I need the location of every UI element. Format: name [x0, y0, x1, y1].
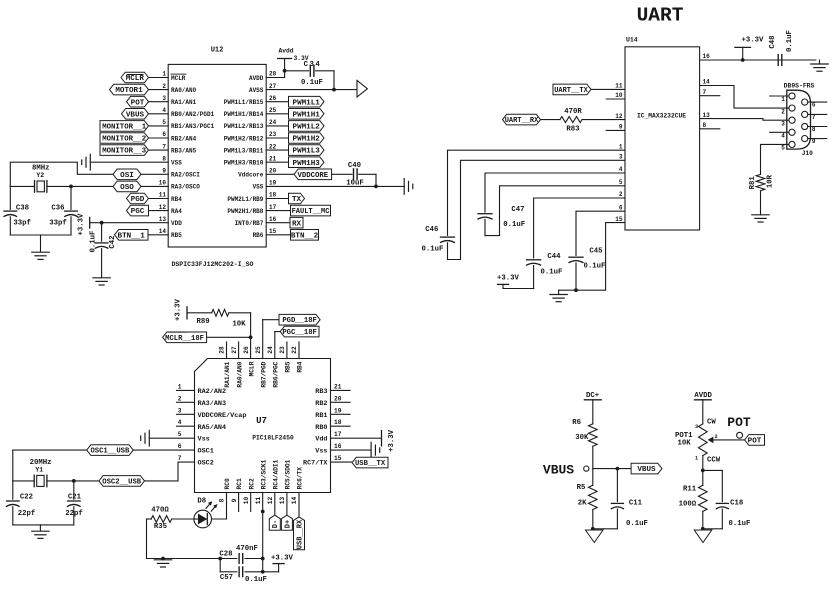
- power +3.3V bottom U7: [271, 555, 294, 564]
- svg-text:30K: 30K: [575, 434, 589, 442]
- wire pin3: [149, 101, 169, 103]
- svg-text:RB3/AN5: RB3/AN5: [171, 147, 197, 154]
- wires U7 left stubs pins1-4: [177, 390, 195, 426]
- node OSI flag: [113, 169, 141, 180]
- svg-text:0.1uF: 0.1uF: [786, 30, 794, 52]
- svg-text:Vddcore: Vddcore: [238, 172, 264, 179]
- capacitor C42: [90, 223, 118, 278]
- svg-text:6: 6: [619, 204, 623, 211]
- svg-text:BTN__2: BTN__2: [291, 232, 319, 240]
- svg-text:PWM1L3: PWM1L3: [293, 148, 321, 156]
- svg-text:15: 15: [615, 216, 623, 223]
- wire to ground C45: [559, 290, 576, 294]
- power Avdd supply: [278, 48, 309, 78]
- wire pin2: [149, 89, 169, 91]
- wire DB9 pin4 stub: [770, 131, 789, 133]
- wire pin24: [266, 125, 288, 127]
- svg-text:5: 5: [619, 179, 623, 186]
- UART title: [637, 5, 684, 27]
- svg-text:TX: TX: [292, 196, 302, 204]
- svg-text:16: 16: [703, 53, 711, 60]
- svg-text:13: 13: [279, 497, 286, 505]
- svg-text:5: 5: [781, 145, 785, 152]
- wire pin11: [149, 198, 169, 200]
- wire OSC2 route: [145, 462, 195, 481]
- svg-text:PWM1L1/RB15: PWM1L1/RB15: [224, 99, 264, 106]
- wire crystal Y1 left: [13, 480, 34, 482]
- svg-text:27: 27: [269, 83, 277, 90]
- svg-text:DB9S-FRS: DB9S-FRS: [784, 82, 815, 89]
- node PGD flag: [127, 193, 149, 204]
- svg-text:33pf: 33pf: [49, 219, 67, 227]
- svg-text:2: 2: [781, 108, 785, 115]
- svg-text:MCLR__18F: MCLR__18F: [165, 335, 204, 343]
- svg-text:17: 17: [334, 431, 342, 438]
- svg-text:10K: 10K: [678, 439, 692, 447]
- wire R6 to R5: [584, 446, 593, 485]
- wire pin9 stub: [606, 129, 625, 131]
- svg-text:R6: R6: [572, 419, 581, 427]
- node OSC1_USB flag: [87, 445, 134, 456]
- svg-text:RB0: RB0: [315, 424, 327, 432]
- svg-text:D8: D8: [197, 498, 206, 506]
- wire OSC2 flag to crystal: [47, 479, 99, 483]
- wire pin26: [266, 101, 288, 103]
- svg-text:C45: C45: [589, 247, 602, 255]
- svg-text:Avdd: Avdd: [278, 48, 293, 55]
- svg-text:R11: R11: [683, 486, 697, 494]
- svg-text:0.1uF: 0.1uF: [245, 576, 267, 584]
- svg-text:U7: U7: [256, 416, 267, 426]
- wire pin5: [149, 125, 169, 127]
- svg-text:14: 14: [703, 79, 711, 86]
- wire pin23: [266, 137, 288, 139]
- svg-text:RB0/AN2/PGD1: RB0/AN2/PGD1: [171, 111, 215, 118]
- svg-text:1: 1: [178, 383, 182, 390]
- svg-text:VDD: VDD: [171, 220, 182, 227]
- svg-text:16: 16: [334, 443, 342, 450]
- svg-text:8: 8: [703, 122, 707, 129]
- svg-text:C47: C47: [511, 206, 524, 214]
- svg-text:MONITOR__3: MONITOR__3: [102, 148, 146, 156]
- wire pin14 to USB_RX: [298, 493, 300, 517]
- svg-text:RC0: RC0: [224, 478, 231, 489]
- svg-text:3: 3: [178, 407, 182, 414]
- capacitor C45: [569, 247, 605, 290]
- svg-text:10K: 10K: [232, 321, 246, 329]
- wire pin20 VDDCORE: [266, 173, 294, 175]
- wire pin13 to D+: [286, 493, 288, 516]
- svg-text:OSI: OSI: [120, 172, 134, 180]
- svg-text:INT0/RB7: INT0/RB7: [235, 220, 264, 227]
- resistor R89: [187, 309, 251, 328]
- svg-text:RX: RX: [292, 220, 302, 228]
- svg-text:21: 21: [334, 383, 342, 390]
- svg-text:OSC2: OSC2: [198, 460, 214, 468]
- svg-text:PIC18LF2450: PIC18LF2450: [252, 435, 294, 442]
- svg-text:13: 13: [159, 216, 167, 223]
- wire pin10 stub: [606, 98, 625, 100]
- capacitor C48: [769, 30, 794, 65]
- svg-text:8: 8: [162, 155, 166, 162]
- wire R5 to ground: [591, 510, 595, 531]
- svg-text:C18: C18: [730, 500, 743, 508]
- wire PGD_18F to pin25: [263, 320, 279, 359]
- svg-text:0.1uF: 0.1uF: [90, 231, 98, 253]
- svg-text:470Ω: 470Ω: [151, 506, 169, 514]
- node POT flag: [127, 96, 149, 107]
- svg-text:RC1: RC1: [236, 478, 243, 489]
- svg-text:10: 10: [159, 180, 167, 187]
- svg-text:RA1/AN1: RA1/AN1: [224, 361, 231, 387]
- wire OSO to pin10: [141, 185, 168, 187]
- svg-text:VBUS: VBUS: [543, 462, 574, 477]
- wire pin6 route: [576, 211, 625, 255]
- svg-text:RC3/SCK1: RC3/SCK1: [260, 459, 267, 489]
- svg-text:R5: R5: [577, 484, 586, 492]
- LED D8: [194, 498, 218, 528]
- svg-text:16: 16: [269, 216, 277, 223]
- capacitor C21: [65, 481, 83, 525]
- svg-text:R89: R89: [197, 318, 210, 326]
- svg-text:PWM2H1/RB8: PWM2H1/RB8: [227, 208, 263, 215]
- svg-text:C42: C42: [109, 235, 117, 248]
- ground sideways pin16 U7: [371, 442, 380, 458]
- wire Vdd pin17: [331, 437, 382, 439]
- node TX flag: [289, 193, 305, 204]
- crystal Y2: [32, 165, 50, 193]
- svg-text:0.1uF: 0.1uF: [421, 245, 443, 253]
- svg-text:22: 22: [291, 346, 298, 354]
- svg-text:0.1uF: 0.1uF: [503, 221, 525, 229]
- svg-text:14: 14: [291, 497, 298, 505]
- node VDDCORE flag: [294, 169, 332, 180]
- wire pin2 route: [534, 198, 625, 258]
- wire pin16: [700, 58, 816, 62]
- U7 side pin names and numbers: [178, 383, 342, 467]
- svg-text:POT: POT: [748, 438, 762, 446]
- svg-text:15: 15: [269, 228, 277, 235]
- wires U7 top stubs: [227, 342, 300, 359]
- wire Y1 caps bottom: [13, 525, 74, 531]
- node MONITOR__1 flag: [100, 121, 149, 132]
- svg-text:RA3/AN3: RA3/AN3: [198, 400, 227, 408]
- resistor R83: [541, 108, 626, 134]
- wire pin7 stub: [700, 95, 720, 97]
- svg-text:+3.3V: +3.3V: [497, 275, 520, 283]
- svg-text:25: 25: [255, 346, 262, 354]
- wire pin25: [266, 113, 288, 115]
- svg-text:POT: POT: [727, 415, 751, 430]
- capacitor C46: [421, 226, 454, 259]
- wire C46 bottom to pin3: [448, 160, 626, 259]
- node VBUS flag: [631, 463, 662, 474]
- svg-text:12: 12: [267, 497, 274, 505]
- ground below C42: [93, 278, 110, 285]
- wire DB9 pin5 to R81: [761, 144, 789, 174]
- capacitor C44: [527, 253, 563, 288]
- svg-text:18: 18: [334, 419, 342, 426]
- resistor R35: [147, 506, 195, 531]
- svg-text:VDDCORE: VDDCORE: [297, 172, 328, 180]
- svg-text:MCLR: MCLR: [126, 75, 145, 83]
- wire pin17: [266, 210, 290, 212]
- wire OSI to pin9: [141, 173, 168, 175]
- wire POT wiper: [708, 432, 745, 443]
- wire pin27 AVSS: [266, 89, 357, 91]
- svg-text:26: 26: [269, 95, 277, 102]
- wire U14 pin14 to DB9 pin2: [700, 86, 789, 109]
- wire OSC1 route: [13, 450, 195, 481]
- wire crystal left: [10, 185, 34, 187]
- svg-text:RA5/AN4: RA5/AN4: [198, 424, 227, 432]
- svg-text:CW: CW: [707, 418, 716, 426]
- svg-text:RB4: RB4: [171, 196, 182, 203]
- svg-text:10: 10: [615, 92, 623, 99]
- svg-text:6: 6: [162, 131, 166, 138]
- svg-text:2: 2: [178, 395, 182, 402]
- wire pin19 VSS: [266, 185, 404, 187]
- node USB_TX flag: [352, 457, 388, 468]
- wire crystal right to OSO: [47, 185, 113, 189]
- svg-text:PWM1L2/RB13: PWM1L2/RB13: [224, 123, 264, 130]
- svg-text:28: 28: [219, 346, 226, 354]
- node OSC2_USB flag: [99, 476, 145, 487]
- wires U7 right stubs pins21-18: [331, 390, 351, 426]
- svg-text:RB2/AN4: RB2/AN4: [171, 135, 197, 142]
- wire pin14: [148, 234, 168, 236]
- U12 pin names and numbers: [159, 71, 277, 239]
- svg-text:MCLR: MCLR: [171, 75, 186, 82]
- capacitor C47: [478, 206, 525, 236]
- ground right of C48: [811, 60, 828, 71]
- svg-text:1: 1: [695, 456, 698, 462]
- wire pin6: [149, 137, 169, 139]
- svg-text:Vss: Vss: [315, 448, 327, 456]
- wire pin4 route: [485, 173, 625, 212]
- wire VDD pin13: [90, 221, 169, 225]
- svg-text:6: 6: [178, 443, 182, 450]
- capacitor C11: [593, 469, 648, 529]
- svg-text:OSC1__USB: OSC1__USB: [90, 448, 130, 456]
- resistor R5: [577, 484, 597, 510]
- svg-text:AVDD: AVDD: [249, 75, 264, 82]
- svg-text:R35: R35: [154, 523, 167, 531]
- svg-text:PWM1H2/RB12: PWM1H2/RB12: [224, 135, 264, 142]
- svg-text:11: 11: [255, 497, 262, 505]
- svg-text:RB5: RB5: [171, 232, 182, 239]
- wire crystal caps bottom: [10, 235, 71, 252]
- node RX flag: [290, 217, 303, 228]
- POT title: [727, 415, 751, 430]
- node USB_RX flag: [294, 517, 305, 550]
- wire R35 to ground rail: [147, 519, 223, 560]
- wire pin11: [591, 88, 625, 90]
- ground below R81: [752, 215, 769, 222]
- wire pin15: [331, 461, 353, 463]
- node PWM1H3 flag: [289, 157, 325, 168]
- svg-text:4: 4: [781, 133, 785, 140]
- svg-text:C46: C46: [425, 226, 438, 234]
- svg-text:PWM1H3/RB10: PWM1H3/RB10: [224, 160, 264, 167]
- wire C44 to +3.3V: [503, 284, 534, 288]
- node PGC_18F flag: [280, 326, 319, 337]
- svg-text:R81: R81: [749, 176, 757, 190]
- svg-text:8: 8: [812, 126, 816, 133]
- svg-text:1: 1: [162, 71, 166, 78]
- wire MCLR_18F: [207, 336, 251, 338]
- svg-text:C44: C44: [547, 253, 561, 261]
- svg-text:1: 1: [781, 96, 785, 103]
- svg-text:19: 19: [269, 180, 277, 187]
- svg-text:RC7/TX: RC7/TX: [303, 460, 328, 468]
- svg-text:DC+: DC+: [586, 392, 600, 400]
- svg-text:CCW: CCW: [707, 457, 721, 465]
- node FAULT_MC flag: [291, 205, 331, 216]
- svg-text:VBUS: VBUS: [637, 466, 656, 474]
- svg-text:2: 2: [162, 83, 166, 90]
- svg-text:C36: C36: [51, 205, 64, 213]
- svg-text:PWM1L2: PWM1L2: [293, 124, 321, 132]
- svg-text:470R: 470R: [564, 108, 582, 116]
- svg-text:RC6/TX: RC6/TX: [297, 467, 304, 490]
- wire C40 down to VSS: [374, 174, 378, 188]
- ground sideways at pin8: [82, 154, 91, 170]
- power +3.3V at pin13: [78, 213, 90, 236]
- svg-text:PGD: PGD: [131, 196, 145, 204]
- power +3.3V below C44: [497, 275, 520, 285]
- ground below crystal: [32, 252, 49, 259]
- resistor R11: [679, 485, 707, 511]
- svg-text:D+: D+: [284, 520, 292, 528]
- svg-text:VSS: VSS: [253, 184, 264, 191]
- potentiometer POT1: [675, 418, 721, 464]
- svg-text:+3.3V: +3.3V: [174, 298, 182, 321]
- svg-text:21: 21: [269, 155, 277, 162]
- svg-text:23: 23: [269, 131, 277, 138]
- svg-text:11: 11: [615, 83, 623, 90]
- svg-text:+3.3V: +3.3V: [78, 213, 86, 236]
- connector J10 DB9S-FRS body: [781, 82, 816, 157]
- node BTN_2 flag: [291, 230, 319, 241]
- node MONITOR__2 flag: [100, 133, 149, 144]
- crystal Y1: [30, 459, 52, 487]
- wire pin18: [266, 198, 288, 200]
- svg-text:AVDD: AVDD: [694, 392, 712, 400]
- svg-text:UART: UART: [637, 5, 684, 27]
- node PWM1L1 flag: [289, 96, 325, 107]
- svg-text:11: 11: [159, 192, 167, 199]
- svg-text:RB7/PGD: RB7/PGD: [260, 361, 267, 387]
- power +3.3V at pin16: [735, 37, 764, 61]
- svg-text:MOTOR1: MOTOR1: [115, 87, 143, 95]
- svg-text:9: 9: [231, 498, 238, 502]
- svg-text:0.1uF: 0.1uF: [626, 520, 648, 528]
- svg-text:J10: J10: [802, 150, 813, 157]
- svg-text:0.1uF: 0.1uF: [729, 520, 751, 528]
- svg-text:1: 1: [619, 143, 623, 150]
- svg-text:U12: U12: [211, 47, 224, 55]
- wire VSS pin8: [90, 161, 168, 163]
- IC U14 MAX3232 body: [625, 37, 700, 231]
- svg-text:24: 24: [269, 119, 277, 126]
- svg-text:18: 18: [269, 192, 277, 199]
- svg-text:33pf: 33pf: [13, 219, 31, 227]
- svg-text:470nF: 470nF: [236, 545, 258, 553]
- svg-text:RB1: RB1: [315, 412, 327, 420]
- svg-text:C40: C40: [348, 162, 361, 170]
- svg-text:13: 13: [703, 112, 711, 119]
- resistor R6: [572, 419, 597, 446]
- svg-text:20: 20: [334, 395, 342, 402]
- wire pin1: [149, 77, 169, 79]
- svg-text:22pf: 22pf: [18, 510, 36, 518]
- svg-text:3: 3: [162, 95, 166, 102]
- svg-text:0.1uF: 0.1uF: [301, 79, 323, 87]
- wire DB9 pin1 stub: [770, 95, 789, 97]
- svg-text:14: 14: [159, 228, 167, 235]
- wire pin28 AVDD: [266, 69, 286, 78]
- node MOTOR1 flag: [110, 84, 149, 95]
- svg-text:C11: C11: [629, 500, 643, 508]
- node POT flag: [745, 435, 765, 446]
- capacitor C22: [7, 481, 36, 525]
- wire PGC_18F to pin24: [275, 332, 280, 359]
- svg-text:VBUS: VBUS: [126, 111, 145, 119]
- ground sideways right of VSS: [404, 179, 413, 195]
- node MONITOR__3 flag: [100, 145, 149, 156]
- svg-text:RB3: RB3: [315, 388, 327, 396]
- wire pin15 route: [576, 223, 625, 291]
- svg-text:2K: 2K: [578, 500, 587, 508]
- svg-text:+3.3V: +3.3V: [388, 429, 396, 452]
- wire pin16: [266, 222, 290, 224]
- svg-text:UART__TX: UART__TX: [554, 87, 588, 95]
- svg-text:24: 24: [267, 346, 274, 354]
- svg-text:RB4: RB4: [297, 361, 304, 372]
- svg-text:19: 19: [334, 407, 342, 414]
- svg-text:12: 12: [159, 204, 167, 211]
- svg-text:9: 9: [619, 124, 623, 131]
- U14 pin numbers: [615, 53, 710, 223]
- svg-text:RA4: RA4: [171, 208, 182, 215]
- svg-text:C38: C38: [16, 205, 29, 213]
- wire R11 to ground: [701, 511, 705, 530]
- VBUS text: [543, 462, 574, 477]
- svg-text:7: 7: [812, 114, 816, 121]
- svg-text:7: 7: [178, 455, 182, 462]
- ground sideways pin5 U7: [141, 430, 150, 446]
- svg-text:3: 3: [619, 154, 623, 161]
- svg-text:RA3/OSCO: RA3/OSCO: [171, 184, 200, 191]
- wire pin15: [266, 234, 290, 236]
- resistor R81: [749, 174, 775, 214]
- svg-text:5: 5: [178, 431, 182, 438]
- capacitor C34: [285, 61, 334, 87]
- power AVDD supply: [694, 392, 712, 424]
- svg-text:4: 4: [619, 166, 623, 173]
- svg-text:4: 4: [162, 107, 166, 114]
- power +3.3V top left U7: [174, 298, 187, 321]
- svg-text:3: 3: [781, 120, 785, 127]
- svg-text:POT: POT: [131, 99, 145, 107]
- svg-text:MONITOR__2: MONITOR__2: [102, 136, 146, 144]
- svg-text:17: 17: [269, 204, 277, 211]
- wire Vss pin16: [331, 449, 372, 451]
- svg-text:22pf: 22pf: [65, 510, 83, 518]
- svg-text:C28: C28: [219, 551, 232, 559]
- svg-text:6: 6: [812, 102, 816, 109]
